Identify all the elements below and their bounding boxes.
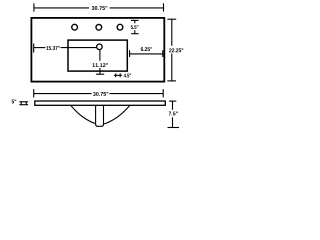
drain hole xyxy=(97,44,103,50)
depth label 22.25" xyxy=(169,48,183,52)
drain center dimension 15.37" line xyxy=(34,44,97,53)
slab thickness label 5" xyxy=(12,100,17,104)
drain center label 15.37" xyxy=(46,46,60,50)
faucet hole offset label 5.5" xyxy=(131,25,139,29)
height dimension 7.5" xyxy=(168,101,180,127)
faucet hole center xyxy=(96,24,102,30)
bottom width dimension line 30.75" xyxy=(34,89,164,97)
top width dimension line 30.75" xyxy=(34,3,164,11)
slab thickness dimension ticks xyxy=(19,101,28,105)
sink cutout rectangle xyxy=(68,40,127,71)
faucet hole left xyxy=(72,24,78,30)
countertop slab (front view) xyxy=(35,101,166,105)
cutout edge label 4.5" xyxy=(124,74,131,78)
right gap label 6.25" xyxy=(141,47,152,51)
drain position label 11.12" xyxy=(92,63,108,67)
faucet hole right xyxy=(117,24,123,30)
drain position leader 11.12" xyxy=(96,50,104,74)
countertop outline (top view) xyxy=(31,18,164,82)
cutout edge dimension 4.5" xyxy=(114,73,122,77)
basin bowl (front view) xyxy=(70,105,130,125)
top width dimension label 30.75" xyxy=(92,6,108,10)
drain stub (front view) xyxy=(96,104,104,126)
right gap dimension 6.25" xyxy=(130,50,163,57)
depth dimension 22.25" xyxy=(167,19,176,81)
height label 7.5" xyxy=(169,112,178,116)
bottom width label 30.75" xyxy=(93,92,108,96)
faucet hole offset dimension 5.5" xyxy=(131,20,139,33)
